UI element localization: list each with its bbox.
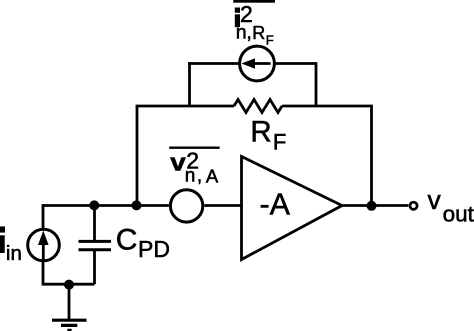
wire: top noise loop right vertical <box>315 62 318 106</box>
label v2n,A with overline <box>169 147 219 187</box>
label R_F <box>250 115 286 154</box>
voltage noise source v2n,A <box>170 190 202 222</box>
svg-text:n: n <box>236 21 247 43</box>
wire: top noise loop right horizontal <box>275 62 316 65</box>
svg-text:in: in <box>6 242 22 265</box>
svg-text:A: A <box>206 166 219 187</box>
op-amp U1 (-A) <box>242 157 343 260</box>
capacitor C_PD <box>79 241 112 249</box>
svg-text:C: C <box>116 224 138 257</box>
wire: main input net, photodiode node to noise source <box>43 204 169 207</box>
svg-text:-A: -A <box>260 188 291 222</box>
wire: feedback branch left vertical <box>136 106 139 206</box>
svg-text:F: F <box>266 32 274 47</box>
resistor R_F <box>234 100 282 113</box>
wire: capacitor branch top <box>93 206 96 241</box>
wire: feedback resistor left segment <box>136 105 234 108</box>
ground <box>52 320 87 330</box>
wire: ground stub <box>68 284 71 319</box>
svg-text:PD: PD <box>138 236 170 262</box>
node: ground junction <box>64 280 74 290</box>
wire: feedback resistor right segment <box>282 105 373 108</box>
wire: top noise loop left horizontal <box>188 62 239 65</box>
terminal: output open circle <box>410 202 417 209</box>
svg-text:F: F <box>273 130 286 155</box>
node: output junction <box>367 201 377 211</box>
svg-text:,: , <box>246 21 251 43</box>
wire: top noise loop left vertical <box>188 62 191 106</box>
wire: noise source to amplifier input <box>204 204 240 207</box>
svg-text:v: v <box>428 185 442 215</box>
label i2n,RF with overline <box>233 0 275 47</box>
svg-text:out: out <box>443 202 474 227</box>
wire: current source branch bottom <box>43 262 95 285</box>
wire: current source branch top <box>42 204 45 228</box>
label i_in <box>0 226 22 264</box>
node: feedback junction at amplifier input <box>132 200 142 210</box>
svg-text:R: R <box>250 115 271 148</box>
wire: capacitor branch bottom <box>93 251 96 284</box>
current source i_in <box>28 229 60 261</box>
current noise source i2n,RF <box>240 46 275 81</box>
node: photodiode capacitor junction <box>89 200 99 210</box>
label v_out <box>428 185 474 227</box>
label C_PD <box>116 224 170 262</box>
wire: output from op-amp to terminal <box>342 204 408 207</box>
svg-text:n: n <box>185 165 196 186</box>
svg-text:R: R <box>252 23 265 43</box>
svg-text:,: , <box>197 165 202 186</box>
wire: feedback branch right vertical to output <box>370 106 373 206</box>
